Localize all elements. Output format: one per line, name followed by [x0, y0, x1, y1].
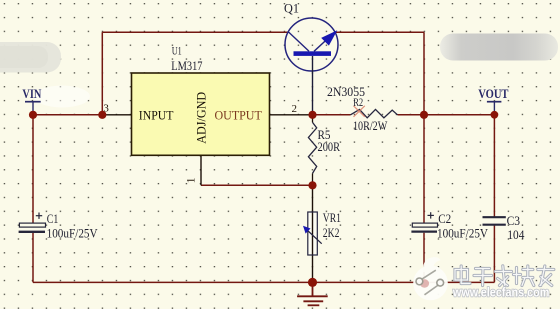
capacitor C1 plates — [19, 223, 46, 232]
svg-text:ADJ/GND: ADJ/GND — [195, 92, 209, 144]
watermark logo bottom right — [413, 257, 448, 300]
svg-text:100uF/25V: 100uF/25V — [437, 226, 489, 241]
junction R2 right — [420, 111, 428, 119]
svg-text:104: 104 — [507, 227, 524, 242]
watermark capsule top-right — [440, 34, 558, 61]
svg-text:10R/2W: 10R/2W — [353, 119, 387, 133]
wire top to Q1 collector — [102, 31, 289, 33]
svg-text:VOUT: VOUT — [478, 86, 509, 101]
ground symbol — [297, 282, 328, 305]
regulator U1 LM317 body — [132, 73, 270, 155]
Q1 base lead — [312, 56, 314, 115]
transistor Q1 circle — [285, 18, 338, 71]
junction VIN node — [29, 111, 37, 119]
wire bottom rail — [33, 281, 494, 283]
svg-text:VR1: VR1 — [323, 211, 341, 225]
power port VOUT — [478, 86, 509, 115]
svg-text:LM317: LM317 — [171, 58, 203, 73]
svg-text:C1: C1 — [47, 211, 59, 226]
Q1 collector line — [289, 32, 309, 51]
svg-text:C2: C2 — [438, 211, 451, 226]
svg-text:1: 1 — [185, 177, 197, 183]
junction ground node — [308, 278, 317, 287]
svg-text:www.elecfans.com: www.elecfans.com — [452, 285, 549, 300]
pin INPUT (pin 3) — [102, 114, 131, 116]
dian — [455, 270, 468, 281]
pin ADJ/GND (pin 1) — [200, 155, 202, 185]
Q1 emitter line — [314, 32, 335, 51]
C2 plus sign — [428, 212, 434, 218]
shao — [515, 268, 518, 284]
fa — [496, 270, 512, 273]
wire C1 top lead — [32, 115, 34, 223]
svg-text:Q1: Q1 — [284, 0, 299, 15]
svg-text:VIN: VIN — [22, 86, 41, 101]
wire rail VIN to node3 — [33, 114, 102, 116]
VR1 wiper arrow — [306, 229, 322, 244]
power port VIN — [22, 86, 41, 115]
resistor R5 top lead — [312, 115, 314, 123]
svg-text:U1: U1 — [172, 44, 182, 58]
R2 ERC red cross — [354, 106, 365, 117]
wire Q1 emitter to top right corner — [335, 31, 424, 33]
wire C2 top lead — [423, 115, 425, 223]
wire node2 to R2 — [313, 114, 351, 116]
VR1 body — [308, 212, 318, 255]
svg-text:2K2: 2K2 — [323, 226, 340, 240]
you — [538, 268, 554, 271]
wire C3 bottom lead — [493, 226, 495, 283]
pin OUTPUT (pin 2) — [270, 114, 313, 116]
watermark chinese text (stylized) — [455, 266, 554, 286]
svg-text:2: 2 — [292, 103, 298, 115]
zi — [476, 267, 490, 270]
svg-text:100uF/25V: 100uF/25V — [47, 226, 99, 241]
R5 bottom lead — [312, 173, 314, 185]
watermark blob near VIN — [34, 86, 90, 108]
svg-text:OUTPUT: OUTPUT — [215, 107, 262, 122]
wire C2 bottom lead — [423, 233, 425, 283]
potentiometer VR1 lead — [312, 185, 314, 282]
wire vertical node3 up — [101, 32, 103, 115]
Q1 emitter arrow — [321, 30, 337, 45]
wire ADJ node to R5 bottom node — [201, 184, 313, 186]
wire R2 to VOUT node — [398, 114, 495, 116]
capacitor C2 plates — [411, 223, 437, 232]
watermark blob top-left — [0, 42, 61, 73]
resistor R2 zigzag — [351, 109, 398, 117]
junction VOUT node — [491, 111, 499, 119]
junction node 3 — [98, 111, 106, 119]
svg-text:200R: 200R — [318, 140, 341, 154]
resistor R5 zigzag — [308, 122, 316, 173]
junction ADJ node — [308, 181, 316, 189]
wire C1 bottom lead — [32, 233, 34, 283]
C1 plus sign — [36, 213, 42, 219]
junction C2 bottom — [420, 279, 427, 286]
wire C3 top lead — [493, 115, 495, 217]
capacitor C3 plates — [483, 217, 506, 225]
svg-text:C3: C3 — [507, 213, 520, 228]
Q1 base bar — [294, 51, 332, 56]
wire down right side — [423, 32, 425, 115]
svg-text:R2: R2 — [353, 95, 363, 109]
junction node 2 base — [308, 111, 316, 119]
svg-text:INPUT: INPUT — [139, 107, 174, 122]
